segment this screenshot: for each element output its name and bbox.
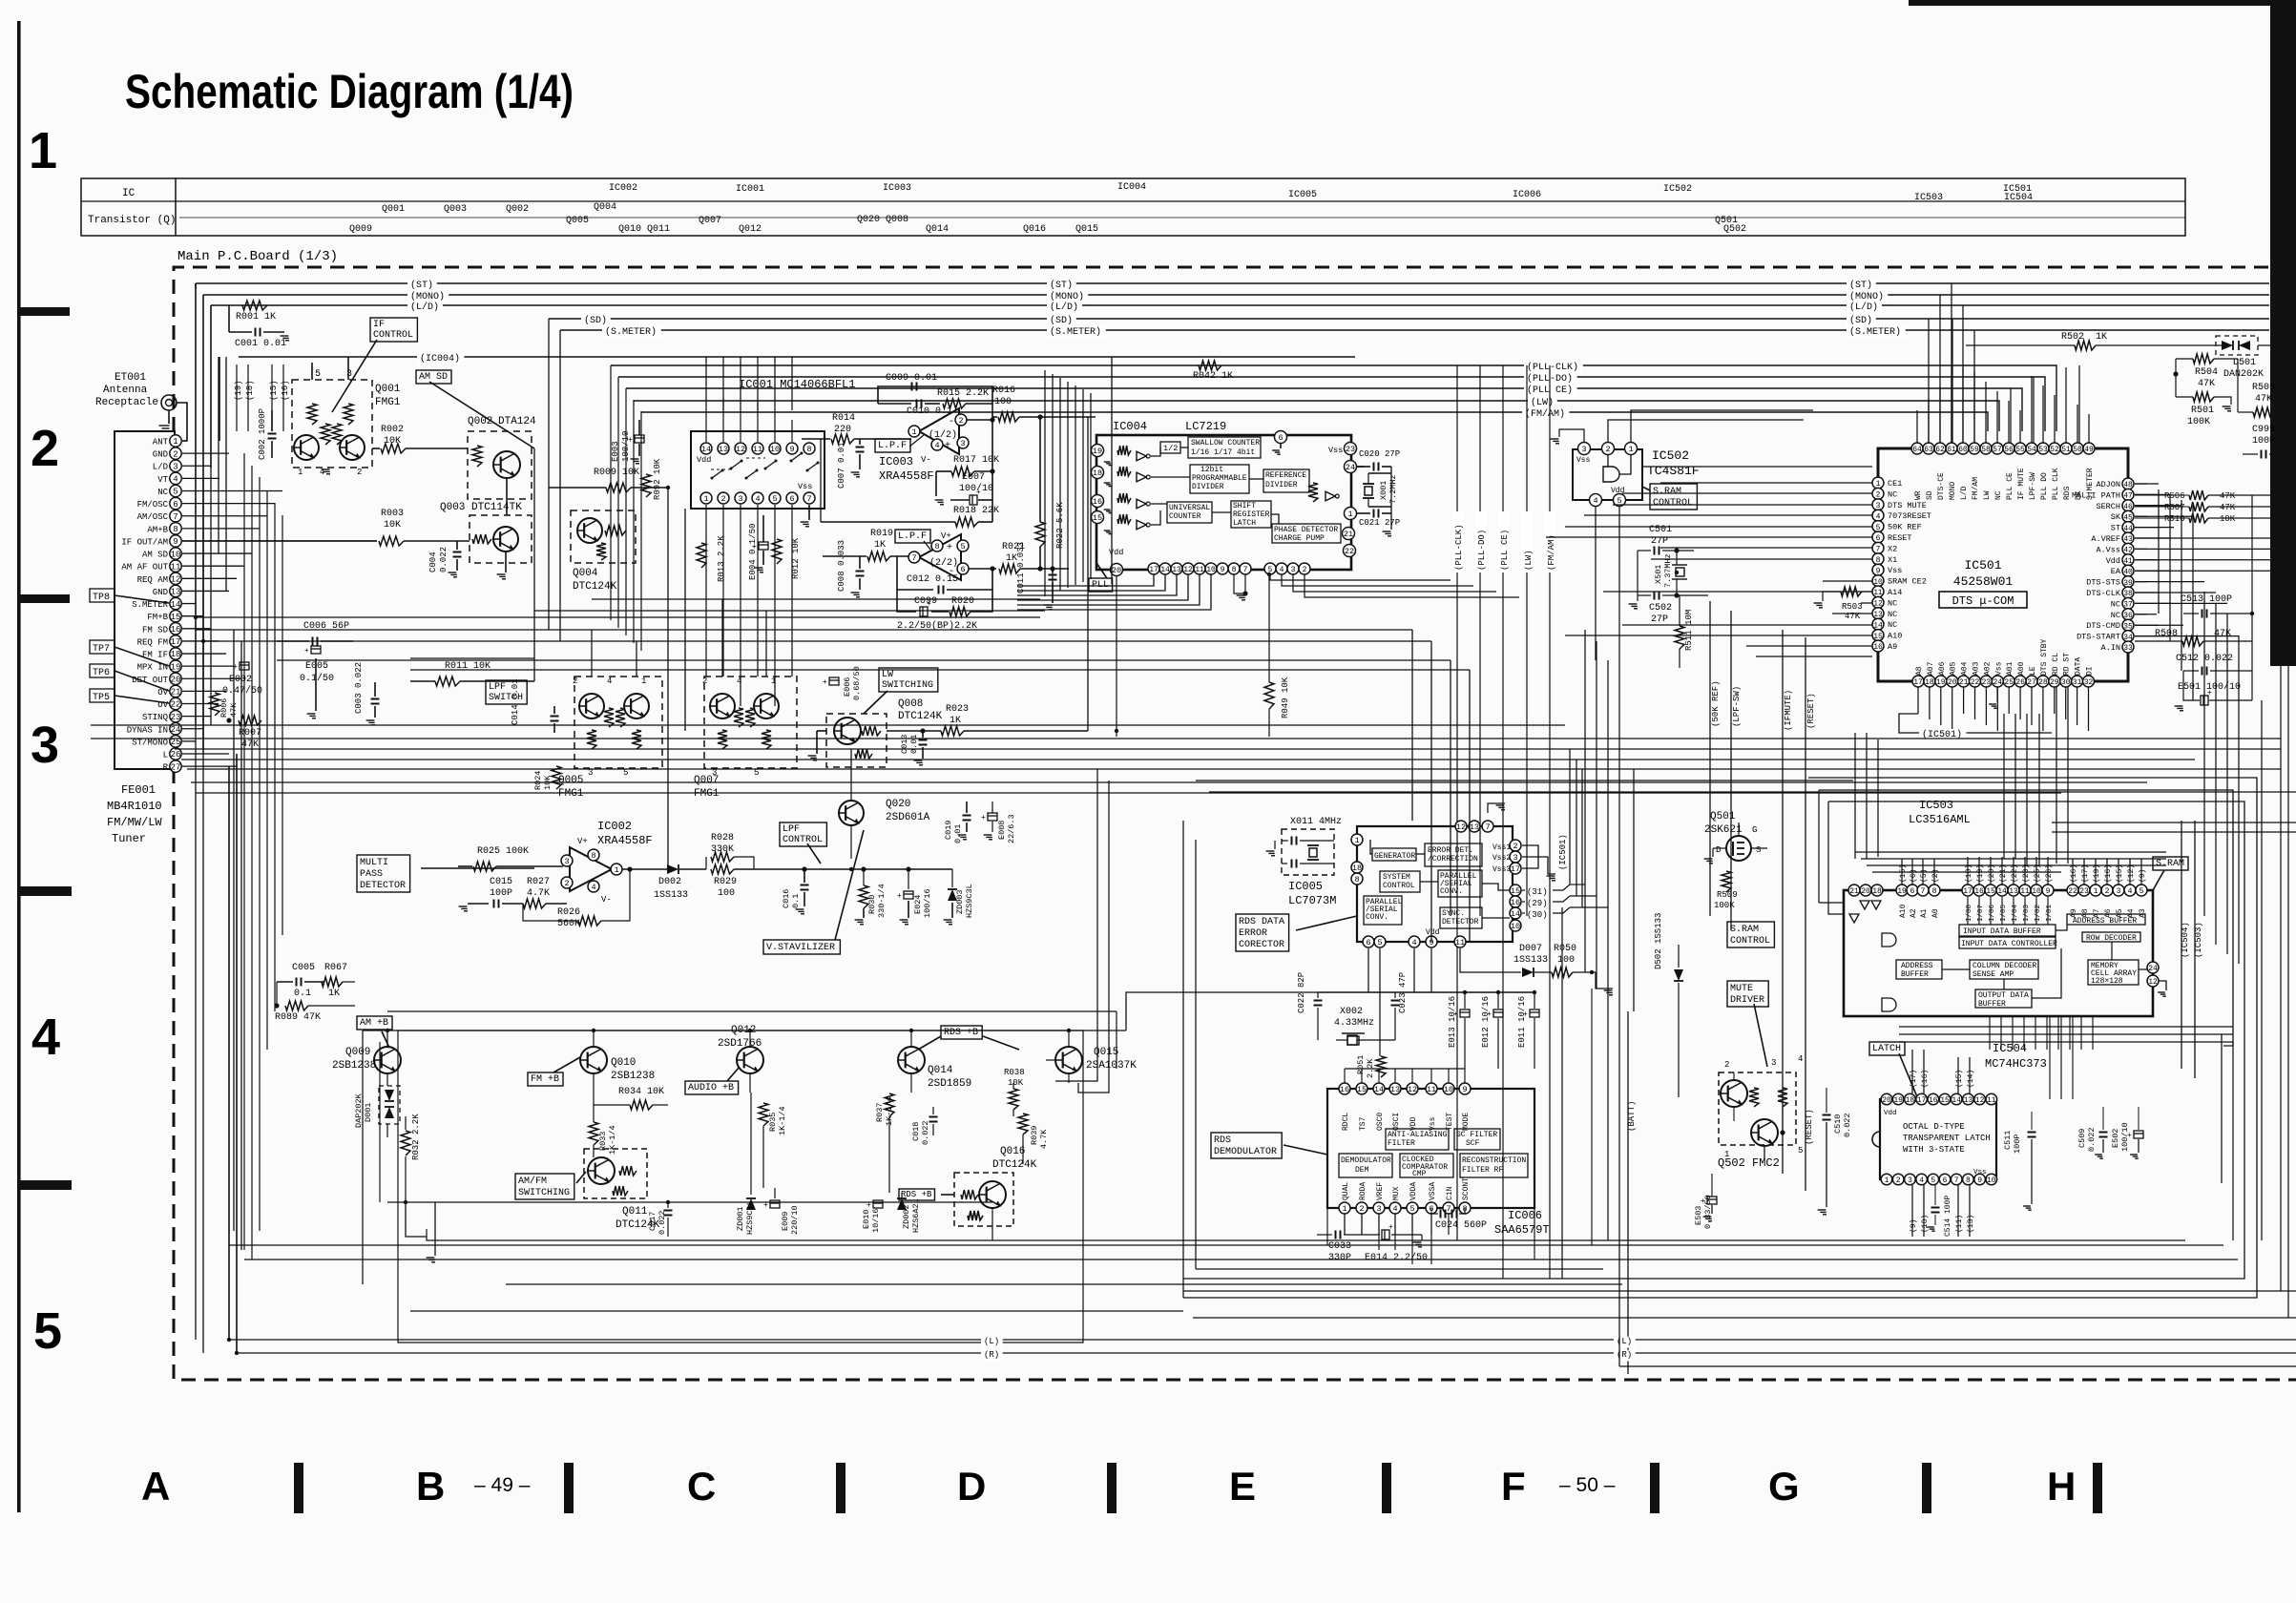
svg-text:2SB1238: 2SB1238 (611, 1071, 655, 1082)
svg-text:A8: A8 (1915, 666, 1924, 676)
IC503 AND gates (1882, 933, 1896, 947)
svg-text:IC: IC (122, 188, 136, 199)
svg-text:PHASE DETECTOR: PHASE DETECTOR (1274, 526, 1338, 534)
svg-text:DTC124K: DTC124K (898, 711, 943, 722)
svg-text:A9: A9 (1888, 642, 1897, 652)
svg-text:Transistor (Q): Transistor (Q) (88, 215, 176, 226)
svg-text:LW: LW (1983, 490, 1992, 500)
transistor Q016 dashed block (954, 1173, 1013, 1226)
svg-text:(LPF-SW): (LPF-SW) (1732, 686, 1742, 727)
svg-text:(PLL-CLK): (PLL-CLK) (1454, 524, 1464, 571)
svg-text:R026: R026 (557, 907, 580, 918)
ground under E005 (315, 658, 317, 711)
wire tuner pin horizontal stubs (182, 440, 187, 442)
svg-text:1: 1 (614, 865, 618, 875)
svg-text:1K: 1K (2096, 332, 2107, 343)
svg-text:Q010: Q010 (611, 1057, 636, 1069)
svg-text:12: 12 (736, 445, 745, 454)
svg-text:C001 0.01: C001 0.01 (235, 339, 286, 349)
wire bus (ST) (196, 282, 2269, 284)
test point TP7 (90, 640, 115, 654)
svg-text:TP6: TP6 (93, 668, 110, 678)
wire (L) line (229, 1339, 2296, 1341)
capacitor E010 10/16 (873, 1200, 883, 1208)
svg-text:19: 19 (171, 662, 181, 672)
ground above IC005 (1488, 803, 1505, 813)
svg-text:14: 14 (171, 600, 181, 610)
svg-text:47K: 47K (2220, 491, 2236, 501)
svg-text:33: 33 (2123, 644, 2133, 653)
svg-text:ROW DECODER: ROW DECODER (2086, 934, 2137, 943)
svg-text:NC: NC (2111, 611, 2120, 620)
svg-text:8: 8 (1354, 875, 1359, 885)
svg-text:19: 19 (1893, 1096, 1903, 1105)
svg-text:50K REF: 50K REF (1888, 523, 1922, 532)
svg-text:AM SD: AM SD (419, 372, 448, 383)
wire op-amp2 output to R021 (969, 568, 996, 570)
svg-text:REGISTER: REGISTER (1233, 510, 1270, 519)
resistor R006 47K vertical (210, 693, 219, 716)
svg-text:E009: E009 (781, 1212, 790, 1231)
svg-text:2: 2 (1513, 842, 1517, 851)
svg-text:15: 15 (1093, 513, 1102, 523)
svg-text:WITH 3-STATE: WITH 3-STATE (1903, 1145, 1965, 1155)
svg-text:0.1/50: 0.1/50 (300, 673, 334, 684)
svg-text:C502: C502 (1649, 603, 1672, 614)
crystal X011 4MHz dashed box (1282, 829, 1334, 875)
svg-text:52: 52 (2050, 446, 2059, 454)
svg-text:R016: R016 (992, 385, 1015, 396)
transistor Q003 DTC114TK dashed block (470, 515, 532, 563)
IC502 TC4S81F block (1573, 449, 1642, 500)
svg-text:IC504: IC504 (1993, 1042, 2027, 1055)
resistor R049 10K vertical (1264, 682, 1274, 709)
svg-text:4: 4 (934, 441, 939, 450)
svg-text:PLL CE: PLL CE (2006, 472, 2014, 500)
svg-text:1/2: 1/2 (1163, 444, 1178, 453)
svg-text:RD ST: RD ST (2063, 653, 2072, 676)
svg-text:18: 18 (1093, 468, 1102, 478)
svg-text:(RESET): (RESET) (1805, 1109, 1814, 1145)
IC503 internal wires (1967, 897, 1969, 925)
svg-text:AM/OSC: AM/OSC (137, 512, 169, 522)
svg-text:1: 1 (298, 468, 303, 477)
transistor Q020 2SD601A (839, 801, 864, 825)
svg-text:7: 7 (806, 494, 811, 504)
diode D501 DAN202K dashed box (2216, 336, 2258, 355)
svg-text:AM AF OUT: AM AF OUT (121, 563, 168, 572)
svg-text:2SD1859: 2SD1859 (928, 1078, 971, 1090)
IC006 anti-aliasing filter box (1386, 1129, 1449, 1150)
svg-text:A07: A07 (1927, 661, 1935, 676)
svg-text:C509: C509 (2077, 1129, 2087, 1148)
PLL boxed label (1089, 578, 1113, 592)
transistor Q008 DTC124K dashed block (826, 714, 887, 767)
transistor Q007 FMG1 dashed block (704, 677, 797, 768)
svg-text:WR: WR (1914, 490, 1923, 500)
IC001 pin 14 (top) (700, 443, 712, 454)
svg-text:DTS STBY: DTS STBY (2040, 638, 2049, 676)
svg-text:EA: EA (2111, 567, 2121, 576)
page: left tick 2/3 (17, 594, 70, 603)
svg-text:FE001: FE001 (121, 783, 156, 797)
svg-text:+: + (628, 436, 633, 445)
svg-text:2: 2 (573, 677, 577, 686)
svg-text:C018: C018 (911, 1122, 921, 1141)
svg-text:14: 14 (1952, 1096, 1961, 1105)
tuner pin 24 DYNAS IN (170, 723, 181, 735)
svg-text:6: 6 (960, 565, 965, 574)
svg-text:2: 2 (1724, 1060, 1729, 1070)
tuner pin 11 AM AF OUT (170, 560, 181, 572)
IC005 internal connect wires (1370, 840, 1372, 854)
svg-text:VSSA: VSSA (1429, 1182, 1437, 1200)
resistor R001 1K on L/D line (242, 301, 267, 310)
svg-text:20: 20 (1948, 678, 1957, 687)
resistor R032 2.2K vertical (401, 1131, 410, 1155)
wire horizontals upper-middle zone 2 (534, 610, 1045, 612)
IC006 demodulator box (1339, 1154, 1392, 1177)
svg-text:D001: D001 (364, 1103, 373, 1122)
svg-text:10: 10 (1511, 922, 1520, 931)
svg-text:10K: 10K (2220, 514, 2236, 524)
svg-text:HZS6A2L: HZS6A2L (911, 1198, 921, 1233)
svg-text:R029: R029 (714, 877, 737, 887)
ground under IC501 Vss pin24 (1996, 687, 1998, 702)
wire horizontals above IC005 (1196, 780, 1853, 781)
svg-text:(25): (25) (2034, 864, 2042, 883)
svg-text:Vdd: Vdd (1611, 487, 1625, 495)
svg-text:L.P.F: L.P.F (898, 531, 927, 542)
svg-text:E002: E002 (229, 675, 252, 685)
wire IC501 top pin riser stubs (1916, 410, 1918, 443)
svg-text:2: 2 (31, 420, 59, 477)
svg-text:MULTI: MULTI (360, 858, 388, 868)
IC001 pin 9 (top) (786, 443, 798, 454)
ground left of IC502 (1559, 429, 1584, 442)
svg-text:HZS9C3L: HZS9C3L (965, 884, 974, 918)
svg-text:ET001: ET001 (115, 372, 146, 384)
svg-text:100: 100 (1557, 955, 1575, 966)
IC501 45258W01 block (1878, 448, 2128, 681)
svg-text:+: + (823, 678, 827, 687)
svg-text:IC001 MC14066BFL1: IC001 MC14066BFL1 (739, 378, 855, 391)
wire +B rails bottom area (363, 1030, 1126, 1031)
svg-text:SCF: SCF (1466, 1139, 1480, 1148)
svg-text:R050: R050 (1554, 944, 1576, 954)
IC / Transistor location table (81, 178, 2185, 236)
svg-text:(19): (19) (234, 380, 243, 401)
svg-text:2: 2 (720, 494, 725, 504)
tuner pin 6 FM/OSC (170, 497, 181, 509)
svg-text:IC005: IC005 (1288, 880, 1323, 893)
svg-text:RDS: RDS (2063, 486, 2072, 500)
svg-text:5: 5 (772, 494, 777, 504)
svg-text:47K: 47K (2198, 379, 2215, 389)
wire (R) line (237, 1352, 2296, 1354)
svg-text:(19): (19) (1976, 864, 1985, 883)
svg-text:1: 1 (29, 122, 57, 179)
IC004 LC7219 block (1096, 435, 1351, 570)
svg-text:R042 1K: R042 1K (1193, 371, 1233, 382)
IC503 address buffer box (right) (2067, 914, 2145, 925)
svg-text:R039: R039 (1030, 1126, 1039, 1145)
svg-text:10: 10 (171, 550, 181, 559)
svg-text:BUFFER: BUFFER (1978, 1000, 2006, 1009)
svg-text:C099: C099 (914, 596, 937, 607)
wire op-amp1 output to R016 (967, 419, 992, 421)
IC504 top pins 20..11 (1881, 1093, 1892, 1105)
svg-text:24: 24 (1993, 678, 2002, 687)
wire antenna to ground (168, 410, 170, 424)
svg-text:2: 2 (173, 449, 177, 459)
svg-text:C017: C017 (648, 1212, 657, 1231)
svg-text:GND: GND (153, 588, 168, 597)
grounds under stabilizer parts (863, 908, 865, 918)
svg-text:R501: R501 (2191, 406, 2214, 416)
wire (IC501) label under chip (1899, 714, 2052, 733)
wire verticals from IC001 area down to Q005/Q007 (705, 534, 707, 677)
IC005 error det box (1425, 843, 1482, 866)
svg-text:3: 3 (173, 462, 177, 471)
svg-text:8: 8 (934, 542, 939, 552)
wire op-amp out (622, 868, 668, 870)
svg-text:E024: E024 (913, 895, 923, 914)
svg-text:9: 9 (789, 445, 794, 454)
svg-text:+: + (2127, 1132, 2132, 1140)
svg-text:59: 59 (1970, 446, 1979, 454)
svg-text:LPF: LPF (489, 682, 506, 693)
svg-text:MC74HC373: MC74HC373 (1985, 1057, 2047, 1071)
svg-text:Vdd: Vdd (1109, 548, 1123, 557)
svg-text:Q020: Q020 (886, 799, 910, 810)
svg-text:(18): (18) (245, 380, 255, 401)
S.RAM CONTROL boxed label (lower) (1727, 922, 1774, 947)
IC004 shift register latch box (1231, 501, 1271, 528)
svg-text:Q008: Q008 (898, 698, 923, 710)
IC005 bottom pins 6 5 4 9 11 (1363, 936, 1374, 947)
IC501 left pins 1-16 (1872, 477, 1884, 489)
svg-text:220: 220 (834, 425, 851, 435)
svg-text:C016: C016 (782, 889, 791, 908)
svg-text:A04: A04 (1961, 661, 1970, 676)
ground under C502 (1637, 551, 1639, 601)
ground below antenna (159, 425, 170, 427)
wire bus lines under IC503 to IC504 (1899, 1026, 2233, 1028)
wire top rail of IC006 caps (1318, 991, 1534, 993)
svg-text:R006: R006 (219, 698, 229, 718)
svg-text:+: + (1388, 1223, 1393, 1232)
wire PLL bus drops to IC501 top pins (2010, 388, 2012, 443)
svg-text:50: 50 (2073, 446, 2082, 454)
svg-text:10: 10 (1444, 1085, 1453, 1094)
IC503 pins 24 12 right (2147, 962, 2159, 973)
svg-text:DYNAS IN: DYNAS IN (127, 725, 168, 735)
svg-text:60: 60 (1958, 446, 1968, 454)
svg-text:1: 1 (703, 494, 708, 504)
svg-text:TS7: TS7 (1359, 1116, 1367, 1131)
svg-text:11: 11 (1427, 1085, 1436, 1094)
svg-text:17: 17 (1963, 887, 1972, 896)
svg-text:DTS-STS: DTS-STS (2086, 578, 2120, 588)
svg-text:C514 100P: C514 100P (1944, 1196, 1952, 1237)
svg-text:DTS-START: DTS-START (2077, 633, 2120, 642)
svg-text:3: 3 (960, 439, 965, 448)
ground bottom-left rail (434, 1202, 436, 1256)
svg-text:D: D (957, 1464, 986, 1509)
tuner pin 10 AM SD (170, 548, 181, 559)
svg-text:Main P.C.Board (1/3): Main P.C.Board (1/3) (177, 249, 338, 264)
test point TP6 (90, 664, 115, 677)
svg-text:X001: X001 (1379, 481, 1388, 500)
svg-text:SK: SK (2111, 512, 2121, 522)
wire verticals under tuner pins (243, 453, 245, 1250)
svg-text:S.RAM: S.RAM (1730, 925, 1759, 935)
svg-text:Vss: Vss (1888, 566, 1902, 575)
wire bus (IC004) (239, 356, 1355, 358)
svg-text:Vdd: Vdd (1426, 928, 1440, 937)
wire left loop around IC005/IC006 region (1182, 821, 1184, 1298)
svg-text:(13): (13) (1967, 1215, 1975, 1233)
svg-text:V.STAVILIZER: V.STAVILIZER (766, 943, 835, 953)
svg-text:DETECTOR: DETECTOR (1442, 918, 1479, 926)
page: left tick 4/5 (17, 1180, 72, 1190)
svg-text:13: 13 (1470, 822, 1479, 832)
svg-text:2: 2 (357, 468, 362, 477)
IC001 switch symbols (712, 470, 722, 478)
svg-text:E502: E502 (2111, 1129, 2120, 1148)
svg-text:Vss: Vss (798, 482, 812, 491)
svg-text:Q501: Q501 (1710, 811, 1736, 822)
svg-text:(50K REF): (50K REF) (1711, 680, 1721, 727)
svg-text:X002: X002 (1340, 1007, 1363, 1017)
svg-text:(FM/AM): (FM/AM) (1525, 408, 1565, 420)
IC003 (2/2) op-amp (919, 534, 961, 580)
wires Q010 column (593, 1073, 595, 1122)
svg-text:Q005: Q005 (566, 216, 589, 226)
svg-text:(14): (14) (1967, 1070, 1975, 1088)
svg-text:11: 11 (753, 445, 762, 454)
wire L-shapes left of Q015 (1055, 769, 1097, 1081)
IC004 oscillator inverter + resistor (1308, 483, 1318, 502)
ground below IC004 pin8 (1234, 574, 1245, 593)
svg-text:100: 100 (994, 397, 1012, 407)
IC503 input data buffer box (1959, 925, 2056, 936)
svg-text:(17): (17) (1910, 1070, 1918, 1088)
svg-text:SWITCHING: SWITCHING (518, 1188, 570, 1198)
resistor R039 4.7K vertical (1018, 1114, 1028, 1135)
svg-text:RDS +B: RDS +B (944, 1028, 978, 1038)
wire right-bottom long horizontals (1619, 1365, 2296, 1367)
svg-text:STINQ: STINQ (142, 713, 168, 722)
svg-text:NC: NC (1994, 490, 2003, 500)
svg-text:TP8: TP8 (93, 593, 110, 603)
AM +B boxed label (357, 1016, 392, 1030)
svg-text:3: 3 (738, 494, 742, 504)
svg-text:SC FILTER: SC FILTER (1456, 1131, 1497, 1139)
svg-text:LATCH: LATCH (1872, 1044, 1901, 1054)
svg-text:6: 6 (789, 494, 794, 504)
wire antenna to tuner pin1 (177, 403, 187, 441)
svg-text:C013: C013 (900, 735, 909, 754)
svg-text:RESET: RESET (1888, 533, 1912, 543)
svg-text:9: 9 (173, 537, 177, 547)
IC006 reconstruction filter box (1460, 1154, 1528, 1177)
svg-text:A0: A0 (1931, 908, 1940, 918)
svg-text:CONTROL: CONTROL (1730, 936, 1770, 947)
svg-text:E005: E005 (305, 661, 328, 672)
svg-text:0.022: 0.022 (657, 1210, 667, 1235)
capacitor C001 0.01 (228, 305, 230, 332)
svg-text:Q007: Q007 (699, 216, 721, 226)
svg-text:E014 2.2/50: E014 2.2/50 (1365, 1252, 1428, 1263)
svg-text:IC501: IC501 (1964, 558, 2001, 572)
svg-text:SCONT: SCONT (1462, 1177, 1471, 1200)
transistor Q502 FMC2 dashed block (1719, 1072, 1796, 1145)
svg-text:B: B (416, 1464, 445, 1509)
svg-text:14: 14 (1374, 1085, 1384, 1094)
resistor R030 330-1/4 vertical (859, 885, 868, 908)
svg-text:0.022: 0.022 (2087, 1127, 2097, 1152)
svg-text:(RESET): (RESET) (1806, 693, 1816, 729)
IC006 clocked comparator box (1400, 1154, 1453, 1177)
svg-text:DATA: DATA (2075, 657, 2083, 676)
svg-text:3: 3 (1513, 853, 1517, 863)
transistor Q005 FMG1 dashed block (574, 677, 662, 768)
svg-text:7: 7 (1446, 1204, 1451, 1214)
svg-text:C015: C015 (490, 877, 512, 887)
svg-text:DTC124K: DTC124K (992, 1159, 1037, 1171)
svg-text:14: 14 (1511, 909, 1520, 919)
svg-text:+: + (927, 600, 931, 609)
svg-text:R032 2.2K: R032 2.2K (411, 1114, 421, 1160)
tuner pin 22 OV (170, 697, 181, 709)
tuner pin 12 REQ AM (170, 572, 181, 584)
svg-text:RDCL: RDCL (1342, 1113, 1350, 1131)
svg-text:DEMODULATOR: DEMODULATOR (1214, 1147, 1277, 1157)
svg-text:4.33MHz: 4.33MHz (1334, 1018, 1374, 1029)
svg-text:(12): (12) (2127, 864, 2136, 883)
svg-text:2SB1238: 2SB1238 (332, 1060, 376, 1072)
svg-text:(11): (11) (1955, 1215, 1964, 1233)
svg-text:MONO: MONO (1949, 482, 1957, 500)
IC001 pin 2 (bottom) (718, 492, 729, 504)
page: left registration rule (17, 21, 21, 1512)
svg-text:FMG1: FMG1 (694, 788, 720, 800)
svg-text:PLL DO: PLL DO (2040, 472, 2049, 500)
svg-text:3: 3 (1291, 566, 1296, 574)
Q001 bias resistors (307, 404, 317, 425)
svg-text:GND: GND (153, 450, 168, 460)
svg-text:5: 5 (173, 488, 177, 497)
IC001 MC14066BFL1 switch block (691, 431, 824, 509)
svg-text:R020: R020 (951, 596, 974, 607)
svg-text:IF: IF (373, 320, 385, 330)
S.RAM CONTROL boxed label (upper) (1650, 484, 1697, 510)
IC006 SC filter box (1454, 1129, 1500, 1150)
resistor R509 100K vertical (1722, 871, 1731, 892)
svg-text:C511: C511 (2003, 1131, 2013, 1150)
svg-text:R001 1K: R001 1K (236, 312, 276, 323)
svg-text:11: 11 (2020, 887, 2030, 896)
svg-text:6: 6 (1910, 887, 1915, 896)
svg-text:RODA: RODA (1359, 1182, 1367, 1200)
svg-text:9: 9 (1221, 566, 1225, 574)
IC001 pin 11 (top) (752, 443, 763, 454)
svg-text:7: 7 (1954, 1176, 1959, 1185)
capacitor C502 27P (1638, 594, 1651, 596)
svg-text:E012 10/16: E012 10/16 (1481, 996, 1491, 1048)
